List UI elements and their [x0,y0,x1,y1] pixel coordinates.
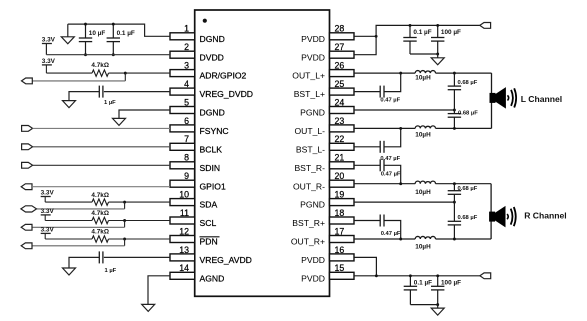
capacitor C9 0.68uF lower [453,110,455,114]
capacitor C3 1uF [98,86,100,98]
wire pin14 AGND [148,276,170,305]
wire resistor to pin10 [109,201,171,203]
svg-text:21: 21 [335,153,345,163]
wire pin27 PVDD [354,36,376,54]
pin 18 stub [330,217,355,224]
svg-text:0.68 µF: 0.68 µF [458,110,478,116]
wire FSYNC [33,127,170,129]
svg-text:4.7kΩ: 4.7kΩ [91,62,109,69]
ground G6 [437,54,439,58]
wire 3.3V to resistor pin12 [45,238,92,240]
pin 14 stub [170,272,195,279]
svg-text:10µH: 10µH [415,243,431,250]
pin 11 stub [170,217,195,224]
svg-text:BST_L+: BST_L+ [294,89,325,99]
wire pin19 PGND [354,201,454,203]
inductor L2 10uH [415,126,435,129]
pin 1 stub [170,33,195,40]
capacitor C11 0.47uF [379,159,381,171]
svg-text:OUT_R-: OUT_R- [293,181,325,191]
svg-text:0.1 µF: 0.1 µF [414,280,432,287]
capacitor C6 100uF [437,25,439,37]
pin 16 stub [330,254,355,261]
svg-text:SDIN: SDIN [200,163,221,173]
wire pin10 to connector [124,202,126,209]
connector SDA port bidir [21,206,37,212]
svg-text:SDA: SDA [200,200,218,210]
svg-text:GPIO1: GPIO1 [200,181,226,191]
wire BCLK [33,146,170,148]
svg-text:OUT_R+: OUT_R+ [291,237,325,247]
wire pin1 DGND net [68,24,170,36]
pin 28 stub [330,33,355,40]
svg-text:13: 13 [179,245,189,255]
wire ADR to connector [124,73,126,81]
svg-text:0.47 µF: 0.47 µF [380,98,400,104]
svg-text:1: 1 [184,24,189,34]
wire 3.3V to resistor R1 [46,72,92,74]
inductor L3 10uH [415,181,435,184]
junction PVDD bottom [375,274,378,277]
capacitor C16 100uF [437,276,439,287]
wire speaker R vertical [490,184,492,239]
svg-text:3: 3 [184,61,189,71]
junction node pin10 [123,201,126,204]
wire pin22 BST_L- [354,146,380,148]
junction OUT_L- cap [453,127,456,130]
svg-text:4.7kΩ: 4.7kΩ [91,229,109,236]
wire pin25 BST_L+ [354,91,380,93]
pin 17 stub [330,236,355,243]
junction PGND R [453,201,456,204]
wire pin13 VREG_AVDD [104,256,170,258]
svg-text:PVDD: PVDD [301,52,325,62]
svg-text:DGND: DGND [200,108,225,118]
pin 25 stub [330,88,355,95]
wire pin21 BST_R- [354,164,380,166]
capacitor C2 0.1uF [112,24,114,38]
connector ADR/GPIO2 port [22,78,33,84]
connector GPIO1 port [21,184,32,190]
svg-text:27: 27 [335,42,345,52]
pin 6 stub [170,125,195,132]
svg-text:9: 9 [184,171,189,181]
svg-text:VREG_DVDD: VREG_DVDD [200,89,253,99]
svg-text:4: 4 [184,79,189,89]
capacitor C13 0.68uF lower [453,202,455,221]
IC body U1 [195,10,330,296]
capacitor C12 0.68uF upper [453,184,455,191]
pin 4 stub [170,88,195,95]
capacitor C1 10uF [85,24,87,38]
wire pin16 PVDD [354,257,376,275]
junction OUT_R- bst [399,182,402,185]
svg-text:PGND: PGND [300,200,325,210]
wire resistor to pin12 [109,238,171,240]
wire DVDD net pin2 [46,54,170,56]
pin 13 stub [170,254,195,261]
ground G7 [437,305,439,309]
speaker L [490,93,496,103]
ground G4 [63,268,76,275]
wire L3 to speaker node [436,183,492,185]
junction dots C2 [112,23,115,26]
wire pin5 DGND [119,110,170,118]
svg-text:BST_R-: BST_R- [294,163,325,173]
pin 15 stub [330,272,355,279]
svg-text:25: 25 [335,79,345,89]
junction OUT_R- cap [453,182,456,185]
wire cap ground rail top [410,53,438,55]
ground G1 on DGND rail [67,24,69,37]
junction node ADR [124,72,127,75]
svg-text:8: 8 [184,153,189,163]
inductor L4 10uH [415,236,435,239]
svg-text:1 µF: 1 µF [104,100,116,106]
wire pin18 BST_R+ [354,220,380,222]
pin 9 stub [170,180,195,187]
svg-text:24: 24 [335,97,345,107]
svg-text:3.3V: 3.3V [42,58,56,65]
wire C14 to OUT_R+ [384,221,401,240]
svg-text:0.68 µF: 0.68 µF [458,215,478,221]
svg-text:1 µF: 1 µF [105,268,117,274]
PDN overline [200,236,220,238]
wire pin23 OUT_L- [354,127,415,129]
svg-text:10 µF: 10 µF [89,30,106,37]
pin 22 stub [330,143,355,150]
inductor L1 10uH [415,71,435,74]
capacitor C7 0.47uF [379,86,381,98]
svg-text:DGND: DGND [200,34,225,44]
connector FSYNC port [22,126,33,132]
junction PGND L [453,109,456,112]
svg-text:17: 17 [335,226,345,236]
svg-text:0.68 µF: 0.68 µF [458,186,478,192]
svg-text:0.47 µF: 0.47 µF [381,172,401,178]
svg-text:7: 7 [184,134,189,144]
wire C7 to OUT_L+ [384,73,401,92]
svg-text:4.7kΩ: 4.7kΩ [91,192,109,199]
svg-text:BST_R+: BST_R+ [292,218,325,228]
svg-text:PVDD: PVDD [301,34,325,44]
svg-text:BCLK: BCLK [200,144,223,154]
speaker R [489,212,495,222]
svg-text:PGND: PGND [300,108,325,118]
connector SCL port [21,224,32,230]
svg-text:2: 2 [184,42,189,52]
svg-text:ADR/GPIO2: ADR/GPIO2 [200,71,247,81]
resistor 4.7k pin11 [92,217,109,223]
svg-text:PVDD: PVDD [301,255,325,265]
pin 5 stub [170,107,195,114]
wire PVDD rail top [376,25,480,36]
wire 3.3V to resistor pin11 [45,220,92,222]
junction OUT_L+ bst [399,72,402,75]
svg-text:16: 16 [335,245,345,255]
pin 3 stub [170,70,195,77]
junction OUT_R+ bst [399,238,402,241]
connector PVDD bottom port [480,273,491,279]
svg-text:15: 15 [335,263,345,273]
pin 27 stub [330,51,355,58]
svg-text:10µH: 10µH [415,189,431,196]
svg-text:26: 26 [335,61,345,71]
svg-text:PVDD: PVDD [301,273,325,283]
svg-text:5: 5 [184,97,189,107]
svg-text:3.3V: 3.3V [42,37,56,44]
svg-text:14: 14 [179,263,189,273]
wire GPIO1 [32,186,170,188]
pin 21 stub [330,162,355,169]
svg-text:OUT_L+: OUT_L+ [292,71,325,81]
svg-text:BST_L-: BST_L- [296,144,325,154]
svg-text:4.7kΩ: 4.7kΩ [91,210,109,217]
svg-text:0.47 µF: 0.47 µF [381,231,401,237]
wire L2 to speaker node [436,127,492,129]
wire L4 to speaker node [436,238,492,240]
connector BCLK port [22,144,33,150]
capacitor C8 0.68uF upper [453,73,455,86]
svg-text:R Channel: R Channel [524,211,567,221]
svg-text:AGND: AGND [200,273,225,283]
pin 26 stub [330,70,355,77]
wire speaker L vertical [491,73,493,128]
svg-text:100 µF: 100 µF [441,29,461,36]
resistor 4.7k pin10 [92,199,109,205]
svg-text:L Channel: L Channel [521,94,562,104]
wire pin11 to connector [124,221,126,228]
wire pin12 to connector [124,239,126,246]
svg-text:OUT_L-: OUT_L- [294,126,325,136]
capacitor C10 0.47uF [379,141,381,153]
resistor 4.7k pin12 [92,236,109,242]
svg-text:DVDD: DVDD [200,52,224,62]
wire SDIN [33,164,170,166]
svg-text:0.1 µF: 0.1 µF [413,29,431,36]
wire C3 to ground [69,92,99,101]
pin 1 indicator dot [203,19,207,23]
junction dots C1 [84,23,87,26]
svg-text:PDN: PDN [200,237,218,247]
svg-text:0.1 µF: 0.1 µF [117,30,135,37]
capacitor C15 0.1uF [409,276,411,287]
wire cap ground rail bottom [410,304,437,306]
ground G2 [63,101,76,108]
svg-text:3.3V: 3.3V [41,227,55,234]
junction OUT_L+ cap [453,72,456,75]
svg-text:0.68 µF: 0.68 µF [458,80,478,86]
svg-text:3.3V: 3.3V [41,190,55,197]
svg-text:VREG_AVDD: VREG_AVDD [200,255,252,265]
wire pin17 OUT_R+ [354,238,415,240]
svg-text:10µH: 10µH [415,131,431,138]
wire pin28 PVDD [354,35,376,37]
wire R1 to pin3 [109,72,171,74]
svg-text:22: 22 [335,134,345,144]
pin 12 stub [170,236,195,243]
junction OUT_R+ cap [453,238,456,241]
pin 19 stub [330,199,355,206]
capacitor C14 0.47uF [379,215,381,227]
wire C4 to ground [69,257,99,268]
junction node pin11 [123,219,126,222]
connector SDIN port [22,162,33,168]
connector PDN port [21,243,32,249]
junction OUT_L- bst [399,127,402,130]
wire C11 to OUT_R- [384,165,401,183]
wire resistor to pin11 [109,220,171,222]
wire pin15 PVDD rail [354,275,480,277]
pin 10 stub [170,199,195,206]
connector PVDD top port [480,23,491,29]
pin 20 stub [330,180,355,187]
svg-text:10: 10 [179,190,189,200]
svg-text:28: 28 [335,24,345,34]
svg-text:11: 11 [180,208,189,218]
wire C10 to OUT_L- [384,128,401,146]
capacitor C4 1uF [98,251,100,263]
wire pin26 OUT_L+ [354,72,415,74]
svg-text:SCL: SCL [200,218,217,228]
pin 24 stub [330,107,355,114]
svg-text:10µH: 10µH [415,75,431,82]
svg-text:19: 19 [335,190,345,200]
ground G5 [142,304,155,311]
junction node pin12 [123,238,126,241]
svg-text:20: 20 [335,171,345,181]
svg-text:100 µF: 100 µF [441,280,461,287]
svg-text:6: 6 [184,116,189,126]
wire pin24 PGND [354,109,454,111]
svg-text:3.3V: 3.3V [41,208,55,215]
resistor R1 4.7k [92,70,109,76]
pin 2 stub [170,51,195,58]
wire pin20 OUT_R- [354,183,415,185]
pin 7 stub [170,143,195,150]
wire L1 to speaker node [436,72,492,74]
svg-text:12: 12 [179,226,189,236]
svg-text:23: 23 [335,116,345,126]
junction PVDD top [375,35,378,38]
svg-text:18: 18 [335,208,345,218]
wire 3.3V to resistor pin10 [45,201,92,203]
pin 23 stub [330,125,355,132]
wire pin4 VREG_DVDD [104,91,170,93]
ground G3 [113,118,126,125]
pin 8 stub [170,162,195,169]
capacitor C5 0.1uF [409,25,411,37]
svg-text:FSYNC: FSYNC [200,126,229,136]
